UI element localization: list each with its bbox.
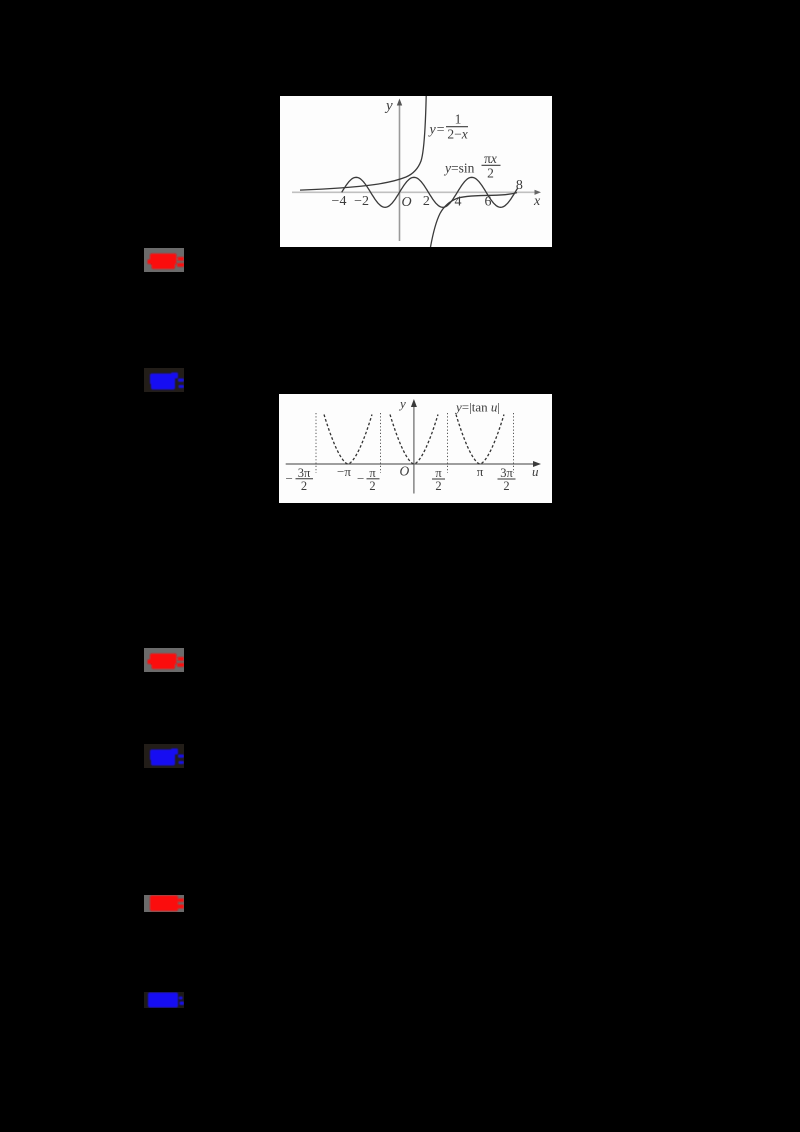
y-axis arrowhead	[397, 99, 402, 106]
asymptote u=3π/2	[513, 413, 515, 473]
svg-text:2−x: 2−x	[447, 127, 467, 142]
asymptote u=π/2	[447, 413, 449, 473]
svg-text:−2: −2	[354, 194, 369, 209]
svg-text:y: y	[398, 396, 406, 411]
svg-text:y=sin: y=sin	[443, 161, 475, 176]
red label patch 2 (例2:)	[144, 648, 184, 677]
y-axis	[413, 403, 415, 494]
asymptote u=-3π/2	[315, 413, 317, 473]
svg-text:2: 2	[423, 194, 430, 209]
sine curve y=sin(πx/2)	[342, 177, 518, 207]
svg-text:6: 6	[485, 195, 492, 210]
svg-text:3π: 3π	[500, 466, 513, 480]
x-axis arrowhead	[535, 190, 542, 195]
red label patch 1 (例1:)	[144, 248, 184, 277]
red label patch 3 (例3:)	[144, 895, 184, 917]
svg-text:4: 4	[455, 195, 462, 210]
svg-text:2: 2	[487, 165, 494, 180]
svg-text:πx: πx	[484, 151, 497, 166]
svg-text:π: π	[477, 464, 484, 479]
branch of |tan u| around π	[456, 415, 504, 465]
hyperbola y=1/(2-x) left branch	[300, 96, 426, 190]
svg-text:π: π	[435, 466, 442, 480]
svg-text:−4: −4	[332, 194, 347, 209]
svg-text:y=: y=	[428, 123, 446, 138]
blue label patch 3 (解析:)	[144, 992, 184, 1013]
svg-text:π: π	[369, 466, 376, 480]
branch of |tan u| around 0	[390, 415, 438, 465]
branch of |tan u| around -π	[324, 415, 372, 465]
asymptote u=-π/2	[380, 413, 382, 473]
svg-text:2: 2	[301, 479, 307, 493]
svg-text:2: 2	[503, 479, 509, 493]
svg-text:O: O	[402, 195, 412, 210]
svg-text:x: x	[533, 194, 541, 209]
u-axis	[286, 463, 537, 465]
x-axis	[292, 191, 537, 193]
svg-text:y=|tan u|: y=|tan u|	[454, 400, 500, 415]
svg-text:O: O	[400, 464, 410, 479]
figure 1: graphs of y=1/(2-x) and y=sin(πx/2)	[280, 96, 552, 247]
blue label patch 1 (解析:)	[144, 368, 184, 397]
y-axis	[399, 103, 401, 241]
svg-text:u: u	[532, 464, 539, 479]
figure 2: graph of y=|tan u|	[279, 394, 552, 503]
svg-text:−π: −π	[337, 464, 351, 479]
svg-text:8: 8	[516, 178, 523, 193]
svg-text:2: 2	[369, 479, 375, 493]
svg-text:3π: 3π	[298, 466, 311, 480]
svg-text:−: −	[357, 471, 364, 486]
svg-text:1: 1	[455, 112, 462, 127]
blue label patch 2 (解析:)	[144, 744, 184, 773]
svg-text:−: −	[286, 471, 293, 486]
svg-text:2: 2	[435, 479, 441, 493]
y-axis arrowhead	[411, 399, 417, 407]
hyperbola y=1/(2-x) right branch	[431, 193, 518, 247]
svg-text:y: y	[384, 98, 393, 114]
u-axis arrowhead	[533, 461, 541, 467]
